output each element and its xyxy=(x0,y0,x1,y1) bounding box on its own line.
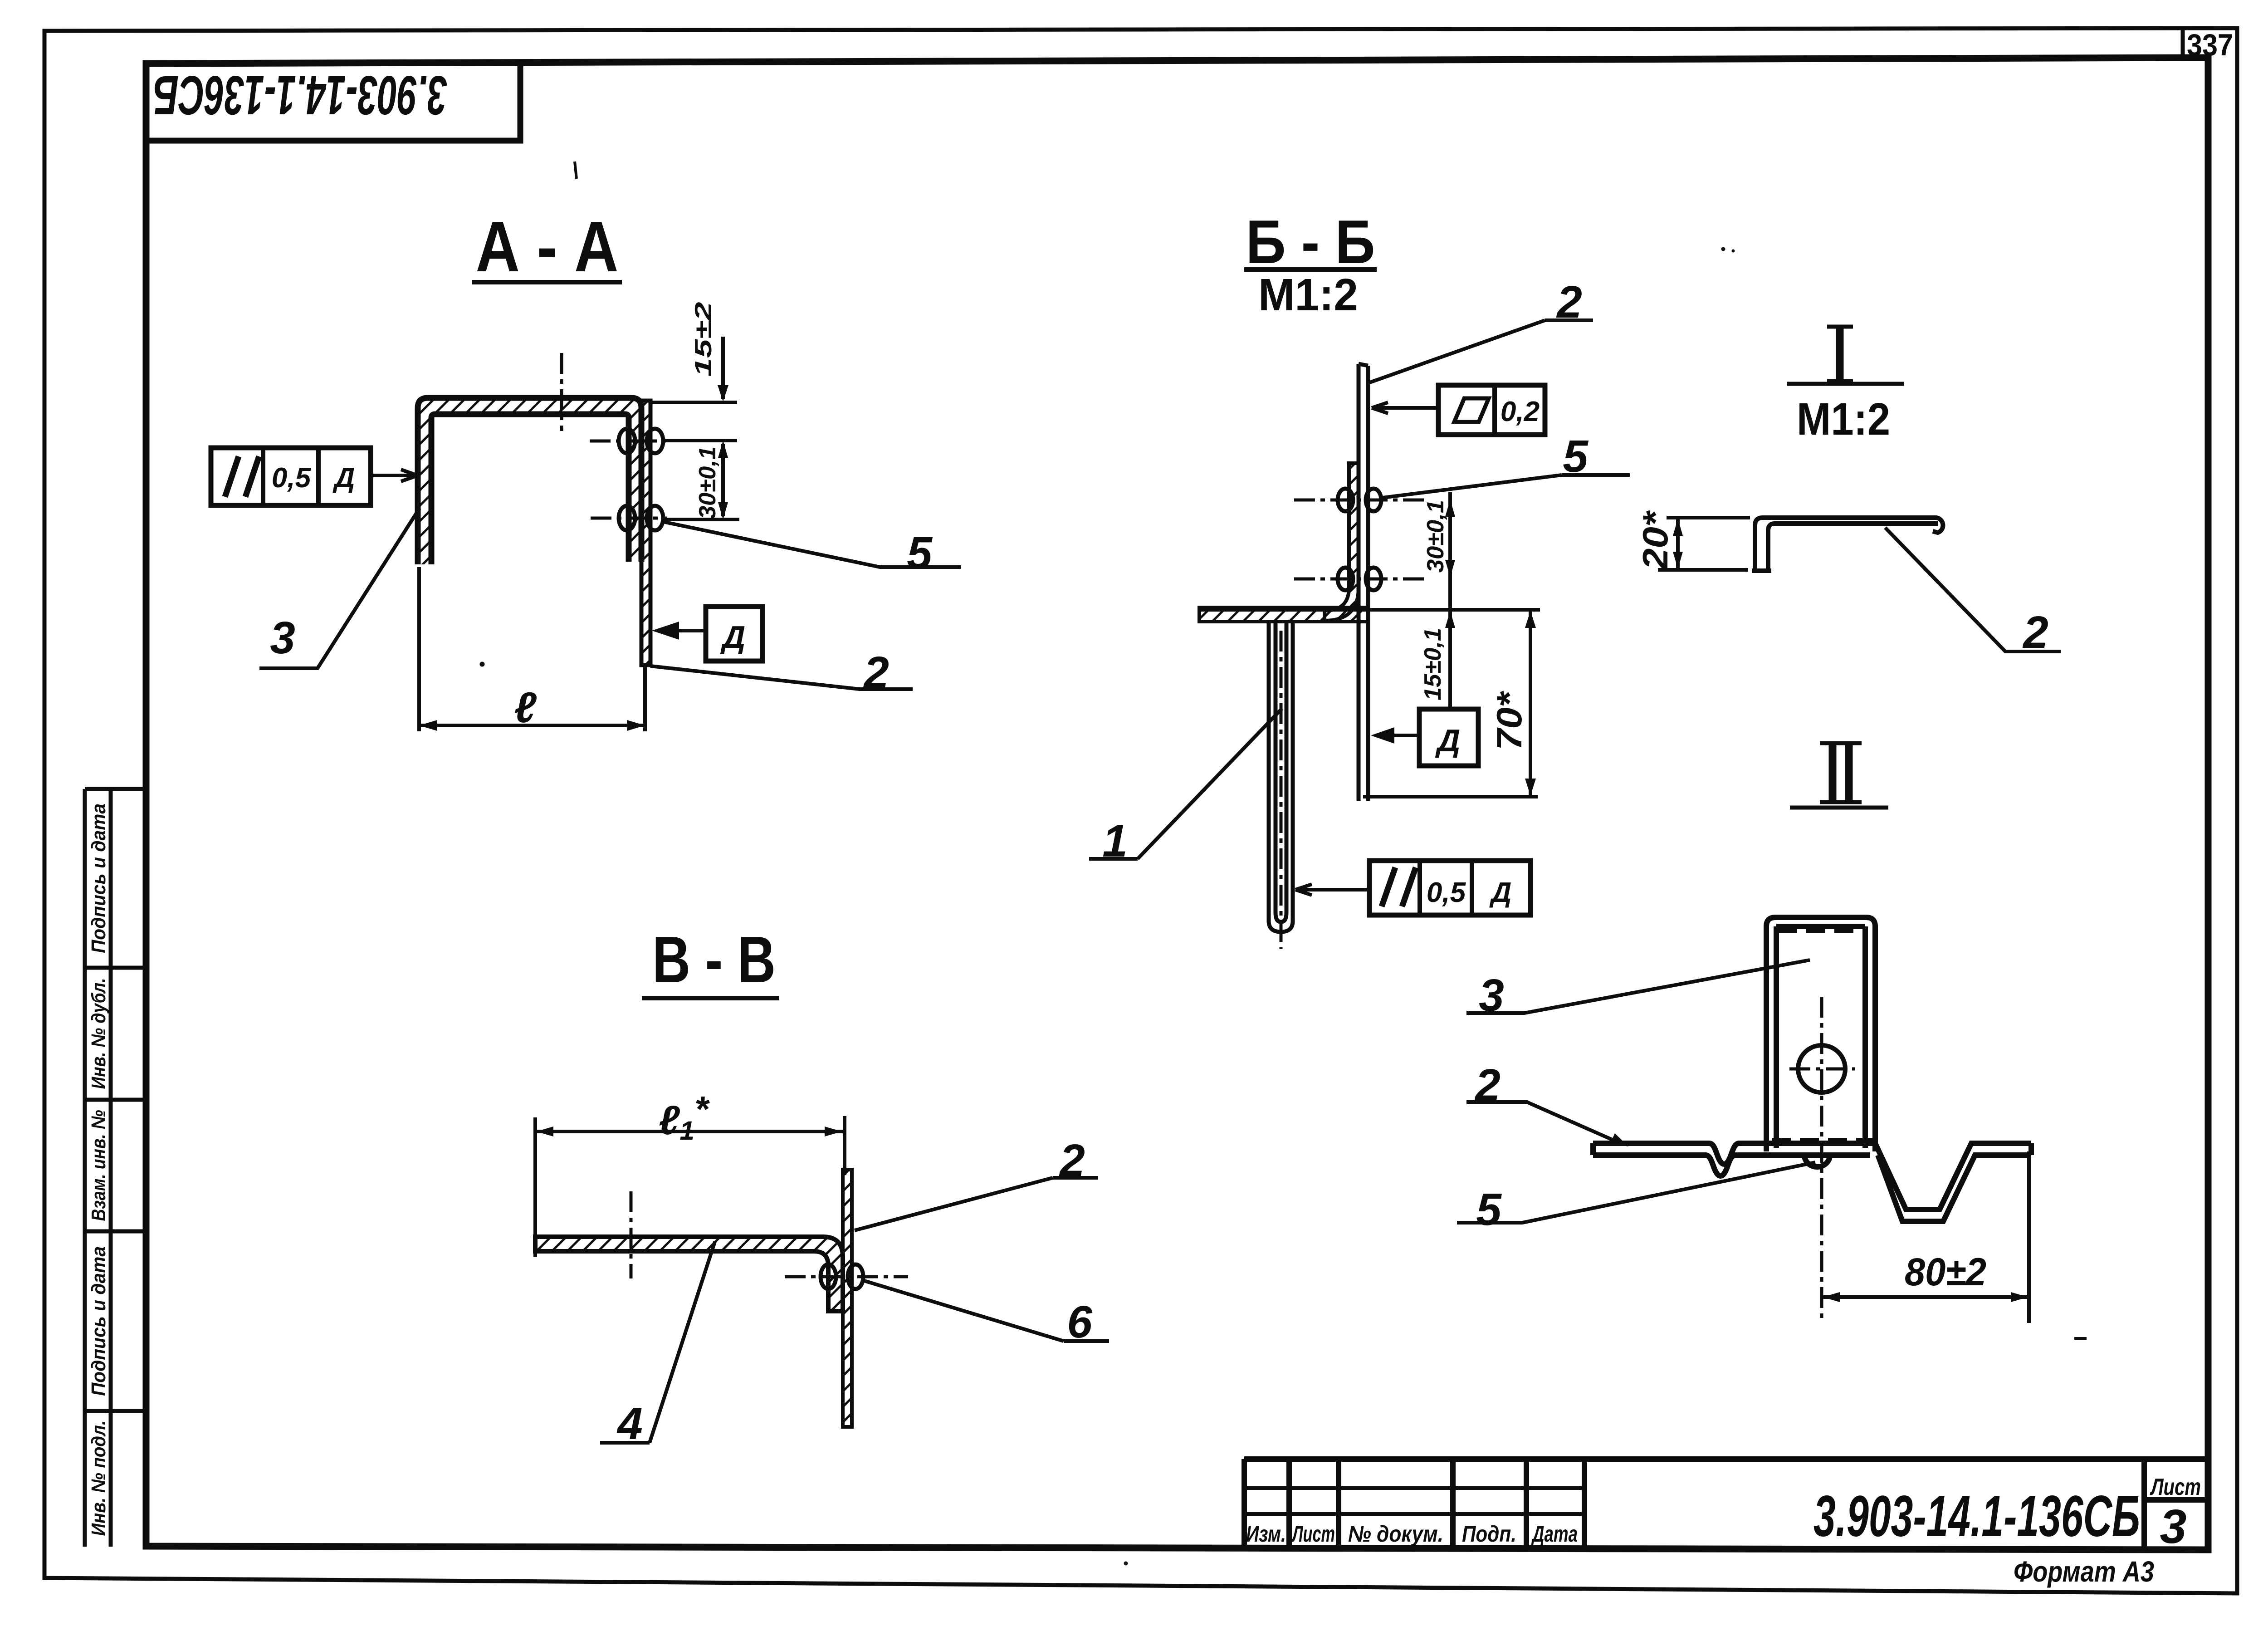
svg-text:А - А: А - А xyxy=(476,207,619,287)
svg-text:3: 3 xyxy=(1479,970,1504,1021)
svg-text:4: 4 xyxy=(616,1398,643,1449)
svg-text:15±2: 15±2 xyxy=(690,302,717,377)
svg-text:Подп.: Подп. xyxy=(1462,1521,1516,1547)
svg-text:№ докум.: № докум. xyxy=(1348,1521,1443,1547)
svg-text:Лист: Лист xyxy=(2150,1474,2201,1500)
svg-text:Лист: Лист xyxy=(1291,1521,1335,1547)
svg-text:3.903-14.1-136СБ: 3.903-14.1-136СБ xyxy=(1813,1484,2140,1549)
svg-text:Б - Б: Б - Б xyxy=(1246,207,1375,276)
svg-text:Формат А3: Формат А3 xyxy=(2014,1555,2154,1588)
svg-text:Д: Д xyxy=(332,462,355,494)
svg-text:Д: Д xyxy=(1489,877,1512,908)
svg-text:2: 2 xyxy=(2022,607,2048,658)
svg-text:1: 1 xyxy=(1102,816,1128,867)
svg-text:2: 2 xyxy=(1059,1135,1085,1186)
svg-text:15±0,1: 15±0,1 xyxy=(1420,628,1446,700)
svg-text:Дата: Дата xyxy=(1531,1521,1578,1547)
svg-text:20*: 20* xyxy=(1635,510,1675,571)
svg-text:2: 2 xyxy=(1474,1060,1501,1111)
svg-text:В - В: В - В xyxy=(652,923,776,996)
svg-text:0,5: 0,5 xyxy=(1427,877,1466,908)
svg-text:Изм.: Изм. xyxy=(1246,1521,1286,1547)
svg-text:5: 5 xyxy=(907,528,933,578)
svg-text:3.903-14.1-136СБ: 3.903-14.1-136СБ xyxy=(153,64,447,126)
svg-text:Д: Д xyxy=(720,619,746,655)
svg-text:М1:2: М1:2 xyxy=(1797,394,1890,445)
svg-text:70*: 70* xyxy=(1489,691,1529,750)
svg-text:2: 2 xyxy=(1556,277,1582,328)
svg-text:6: 6 xyxy=(1067,1297,1093,1347)
svg-text:3: 3 xyxy=(270,612,295,663)
svg-text:Подпись и дата: Подпись и дата xyxy=(88,803,110,953)
svg-text:337: 337 xyxy=(2187,28,2233,62)
svg-text:ℓ: ℓ xyxy=(514,684,537,732)
svg-text:ℓ1*: ℓ1* xyxy=(659,1089,710,1146)
svg-text:0,5: 0,5 xyxy=(272,462,312,494)
svg-text:Взам. инв. №: Взам. инв. № xyxy=(88,1110,110,1221)
svg-text:30±0,1: 30±0,1 xyxy=(1422,500,1449,573)
svg-text:3: 3 xyxy=(2160,1500,2187,1553)
svg-text:80±2: 80±2 xyxy=(1905,1250,1986,1294)
svg-text:0,2: 0,2 xyxy=(1501,396,1540,427)
svg-text:Д: Д xyxy=(1435,723,1461,758)
svg-text:30±0,1: 30±0,1 xyxy=(694,446,721,519)
svg-text:2: 2 xyxy=(863,647,889,698)
svg-text:5: 5 xyxy=(1563,431,1589,482)
svg-text:Инв. № дубл.: Инв. № дубл. xyxy=(88,978,110,1089)
svg-text:Инв. № подл.: Инв. № подл. xyxy=(88,1420,110,1536)
svg-text:М1:2: М1:2 xyxy=(1258,269,1358,320)
svg-text:Подпись и дата: Подпись и дата xyxy=(88,1246,110,1396)
svg-text:5: 5 xyxy=(1476,1184,1502,1235)
